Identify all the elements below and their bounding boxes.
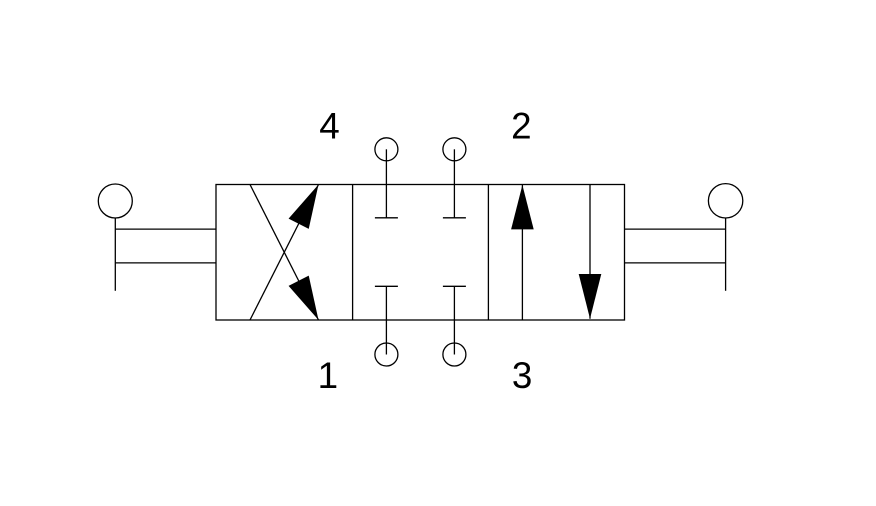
blocked port T bottom-right [443, 286, 466, 354]
left actuator rod lower line [115, 262, 216, 264]
blocked port T bottom-left [375, 286, 398, 354]
right actuator lever [725, 218, 727, 291]
svg-text:3: 3 [512, 355, 532, 396]
section divider left/middle [352, 185, 354, 321]
section divider middle/right [487, 185, 489, 321]
straight flow path arrow up [511, 185, 534, 320]
blocked port T top-left [375, 149, 398, 218]
crossed flow path arrow down-right [250, 185, 319, 321]
port circle 3 [443, 343, 466, 366]
valve body frame [216, 185, 625, 321]
port circle 4 [375, 138, 398, 161]
right actuator rod lower line [625, 262, 726, 264]
left actuator rod upper line [115, 228, 216, 230]
svg-text:4: 4 [319, 106, 339, 147]
svg-text:2: 2 [511, 106, 531, 147]
right actuator rod upper line [625, 228, 726, 230]
svg-text:1: 1 [318, 355, 338, 396]
port circle 1 [375, 343, 398, 366]
crossed flow path arrow up-right [250, 185, 319, 321]
right actuator circle [708, 184, 742, 218]
left actuator circle [98, 184, 132, 218]
left actuator lever [114, 218, 116, 291]
blocked port T top-right [443, 149, 466, 218]
straight flow path arrow down [579, 185, 602, 319]
port circle 2 [443, 138, 466, 161]
